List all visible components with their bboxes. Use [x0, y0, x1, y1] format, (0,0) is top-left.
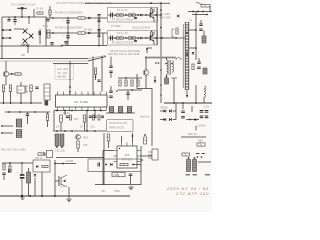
- junction s4a: [192, 11, 194, 13]
- resistor R83: [197, 143, 205, 146]
- dark connector block: [45, 101, 49, 106]
- diode D16: [88, 32, 90, 35]
- junction vb7: [160, 94, 162, 96]
- svg-text:R82 10: R82 10: [188, 132, 197, 136]
- svg-text:R83: R83: [198, 139, 203, 143]
- junction u1: [56, 130, 58, 132]
- transformer T3 winding left: [167, 60, 168, 75]
- junction s4d: [206, 14, 208, 16]
- wire h137: [181, 136, 206, 138]
- resistor R22: [30, 85, 32, 92]
- wire r60 dn: [47, 121, 49, 128]
- wire chB row: [108, 37, 157, 39]
- wire v70: [69, 61, 71, 95]
- wire v54: [53, 111, 55, 132]
- svg-text:R2 68K: R2 68K: [84, 28, 93, 32]
- wire drop28: [27, 46, 29, 53]
- junction corner: [146, 48, 148, 50]
- capacitor C72: [127, 107, 132, 113]
- wire r91 link: [9, 163, 11, 166]
- resistor R41: [119, 80, 121, 86]
- junction rr1: [125, 77, 127, 79]
- svg-text:+5V +12V: +5V +12V: [57, 67, 69, 71]
- capacitor C43b: [109, 96, 113, 98]
- capacitor C82 pair: [200, 111, 204, 118]
- junction in2: [21, 16, 23, 18]
- transformer T2A winding: [128, 13, 136, 17]
- junction t163a: [9, 162, 11, 164]
- junction chB m: [125, 37, 127, 39]
- junction c97 top: [188, 157, 190, 159]
- wire res row bot: [118, 89, 142, 91]
- junction c85a: [197, 156, 199, 158]
- diode D93: [34, 174, 37, 176]
- wire chB rtop: [151, 31, 153, 33]
- capacitor C13b: [197, 67, 200, 69]
- junction c98 top: [194, 157, 196, 159]
- junction p3: [71, 110, 73, 112]
- junction s5a: [3, 102, 5, 104]
- wire c11 top: [203, 31, 205, 37]
- wire t1 left tap: [162, 37, 185, 39]
- svg-text:Haul-Up: Haul-Up: [140, 115, 150, 119]
- bracket relay: [26, 86, 28, 92]
- diode D9: [177, 15, 179, 18]
- wire drop c53: [64, 111, 66, 116]
- capacitor C20: [35, 87, 38, 88]
- junction h119: [189, 119, 191, 121]
- wire bus diagonal: [88, 57, 106, 62]
- resistor R7A: [151, 9, 153, 14]
- junction row1-b: [98, 17, 100, 19]
- wire c4b dn: [51, 44, 53, 46]
- node AC-L: [2, 29, 4, 31]
- varistor VR1: [47, 30, 50, 38]
- svg-text:GND: GND: [114, 189, 120, 193]
- diode D50: [164, 110, 166, 113]
- wire chB out: [154, 37, 157, 39]
- junction t1r2: [195, 47, 197, 49]
- svg-text:-5V: -5V: [101, 189, 105, 193]
- resistor R95: [120, 163, 128, 165]
- junction s5b: [10, 102, 12, 104]
- junction chB n2: [131, 37, 133, 39]
- junction s5c: [30, 102, 32, 104]
- box channel A: [108, 8, 158, 23]
- diode D40: [154, 80, 157, 82]
- svg-text:R61 2K2 C63 1n D60: R61 2K2 C63 1n D60: [1, 148, 26, 152]
- IC1 TL494: [56, 92, 108, 111]
- junction s9z: [43, 153, 45, 155]
- wire d50 in: [160, 110, 164, 112]
- wire box dn: [41, 172, 43, 196]
- svg-text:1K: 1K: [80, 125, 83, 129]
- junction ic2r: [141, 159, 143, 161]
- resistor R52: [83, 115, 86, 122]
- resistor R91: [9, 166, 11, 172]
- junction chA q: [145, 14, 147, 16]
- box feedback dashed: [55, 64, 74, 80]
- diode D91: [36, 165, 38, 167]
- svg-text:C51: C51: [90, 125, 95, 129]
- resistor R60: [46, 114, 48, 121]
- svg-text:F1 5A: F1 5A: [36, 7, 43, 11]
- wire r90 dn: [3, 175, 5, 181]
- capacitor C5d: [97, 20, 100, 21]
- wire chA qe: [153, 18, 155, 22]
- svg-text:GB: GB: [21, 53, 25, 57]
- inductor L3A: [116, 13, 124, 17]
- junction bl4: [54, 195, 56, 197]
- wire C5 link: [67, 27, 69, 34]
- junction c53: [61, 146, 63, 148]
- junction c44: [116, 90, 118, 92]
- resistor R55: [98, 115, 100, 120]
- wire t1 right1: [189, 29, 196, 31]
- capacitor C5a: [46, 20, 49, 22]
- junction vb4: [160, 37, 162, 39]
- capacitor C10: [199, 24, 202, 26]
- capacitor C4c: [64, 42, 67, 43]
- bracket channel corner: [147, 48, 152, 53]
- junction p4: [86, 110, 88, 112]
- junction row2-b: [98, 32, 100, 34]
- arrow winding end: [186, 95, 188, 98]
- wire bc h: [55, 163, 76, 165]
- wire br link: [198, 161, 211, 163]
- capacitor C71: [118, 107, 123, 113]
- resistor R62: [38, 153, 45, 155]
- junction ic2t: [132, 135, 134, 137]
- wire c13: [198, 58, 200, 62]
- node conn a: [1, 125, 3, 127]
- svg-text:C7 1n T2: C7 1n T2: [117, 31, 128, 35]
- svg-text:1K: 1K: [56, 125, 59, 129]
- capacitor C10b: [199, 29, 202, 31]
- junction v70: [69, 86, 71, 88]
- svg-text:WT7510: WT7510: [122, 158, 132, 162]
- junction m2: [19, 111, 21, 113]
- resistor R30: [94, 68, 96, 75]
- resistor R12: [192, 64, 194, 70]
- junction p1: [56, 110, 58, 112]
- wire r22 stub: [20, 82, 22, 86]
- wire v192: [191, 106, 193, 112]
- junction bl3: [41, 195, 43, 197]
- bracket primary: [172, 29, 174, 37]
- resistor R2: [78, 32, 85, 34]
- junction t1 mid: [186, 32, 188, 34]
- wire q5 lead: [9, 73, 22, 75]
- diode D52: [164, 118, 166, 121]
- junction bc1: [54, 163, 56, 165]
- capacitor C55: [93, 116, 96, 117]
- wire v141: [140, 146, 142, 185]
- wire bottom bus: [0, 195, 130, 197]
- wire drop r22: [30, 92, 32, 104]
- capacitor C3 electrolytic: [13, 17, 16, 25]
- wire v104: [103, 133, 105, 185]
- node conn b: [1, 132, 3, 134]
- junction chA l: [114, 14, 116, 16]
- capacitor C5x: [39, 31, 41, 35]
- transistor Q9: [76, 135, 81, 140]
- junction row2-a: [67, 32, 69, 34]
- wire row3: [62, 45, 107, 47]
- capacitor C6 electrolytic: [66, 33, 69, 42]
- diode D15: [88, 17, 90, 20]
- wire right vbus: [160, 3, 162, 103]
- capacitor C41: [109, 66, 112, 68]
- capacitor C60: [16, 119, 22, 127]
- wire c4c dn: [65, 43, 67, 46]
- transformer T3 winding right: [172, 61, 173, 72]
- wire c10 link: [200, 20, 202, 24]
- wire r3 dn: [49, 15, 51, 18]
- capacitor C62: [26, 114, 29, 116]
- wire tick196: [195, 126, 197, 131]
- wire c43 link: [110, 86, 112, 91]
- wire h112: [5, 111, 50, 113]
- junction bus d4: [171, 63, 173, 65]
- junction vb5: [160, 69, 162, 71]
- svg-text:+5V: +5V: [60, 185, 65, 189]
- capacitor C50: [66, 116, 69, 117]
- diode D53: [169, 118, 171, 121]
- wire h63: [53, 63, 88, 65]
- connector CN3: [47, 151, 53, 158]
- wire chA out: [154, 14, 157, 16]
- wire ic2 left: [103, 150, 114, 152]
- capacitor C91 electrolytic big: [20, 163, 25, 196]
- wire chA row: [108, 14, 157, 16]
- wire step right: [137, 74, 152, 146]
- junction C2b: [25, 8, 26, 9]
- wire q8 gnd: [68, 187, 70, 198]
- wire sec4 low bus: [164, 102, 212, 104]
- ground G2: [21, 198, 25, 200]
- junction u4: [94, 130, 96, 132]
- junction chA m: [125, 14, 127, 16]
- svg-text:C52 10u: C52 10u: [55, 149, 65, 153]
- wire v196: [195, 85, 197, 103]
- wire ch feed2: [157, 37, 161, 39]
- wire c92 up: [28, 168, 30, 172]
- diode cross X1: [23, 29, 28, 34]
- junction u5: [64, 130, 66, 132]
- transformer T1 core: [182, 24, 184, 88]
- svg-text:+5VSB: +5VSB: [65, 159, 73, 163]
- wire h119: [186, 119, 199, 121]
- wire drop ic3: [20, 93, 22, 103]
- junction in3: [28, 16, 30, 18]
- wire c44 dn: [127, 95, 129, 101]
- diode D95: [110, 163, 112, 166]
- wire r60 up: [47, 112, 49, 114]
- wire d53 out: [173, 119, 177, 121]
- capacitor C90: [2, 173, 5, 175]
- wire v174: [173, 78, 175, 103]
- capacitor C7A: [111, 13, 113, 18]
- resistor R7B: [151, 32, 153, 37]
- wire q7 up: [145, 57, 147, 70]
- diode D55: [194, 118, 196, 121]
- capacitor C4b: [50, 43, 53, 45]
- wire drop r21: [10, 92, 12, 104]
- capacitor C44: [126, 93, 129, 95]
- svg-text:R2 68K C6 330uF/200V: R2 68K C6 330uF/200V: [55, 26, 83, 30]
- wire input top: [2, 16, 46, 18]
- junction vb2: [160, 14, 162, 16]
- junction s4b: [197, 11, 199, 13]
- wire ch right rail: [156, 8, 158, 46]
- diode D13: [11, 73, 13, 75]
- junction t3d: [166, 76, 168, 78]
- wire chB rbot: [151, 36, 153, 37]
- wire c62 up: [27, 112, 29, 114]
- junction row3: [98, 45, 100, 47]
- wire drop r20: [3, 92, 5, 104]
- wire tr dn: [186, 90, 188, 95]
- wire row1: [46, 17, 107, 19]
- capacitor C93: [9, 169, 11, 172]
- capacitor C98: [193, 160, 197, 172]
- wire drop 95: [94, 111, 96, 117]
- wire acl lead: [3, 29, 9, 31]
- resistor R20: [2, 85, 4, 92]
- junction t1r1: [195, 29, 197, 31]
- junction chA out: [155, 14, 157, 16]
- capacitor C14: [203, 68, 207, 74]
- svg-text:150: 150: [83, 143, 88, 147]
- svg-text:C7 1n T2: C7 1n T2: [117, 8, 128, 12]
- capacitor C9A: [134, 18, 137, 19]
- junction m1: [8, 111, 10, 113]
- capacitor C6c: [97, 30, 100, 31]
- capacitor C43: [109, 91, 113, 93]
- junction bx1: [24, 30, 25, 31]
- capacitor C5c: [97, 15, 100, 16]
- junction chB out: [155, 37, 157, 39]
- junction p5: [94, 110, 96, 112]
- box supervisor: [107, 120, 134, 132]
- svg-text:R1 68K C5 330uF/200V: R1 68K C5 330uF/200V: [55, 11, 83, 15]
- junction chA n: [137, 14, 139, 16]
- wire c92 dn: [28, 183, 30, 196]
- junction v183: [182, 102, 184, 104]
- svg-text:PWR GOOD: PWR GOOD: [109, 126, 124, 130]
- capacitor C54: [101, 116, 104, 117]
- svg-text:2?C ATP-250: 2?C ATP-250: [175, 191, 209, 196]
- wire t3 top: [166, 57, 168, 60]
- junction chA n2: [131, 14, 133, 16]
- junction m3: [34, 111, 36, 113]
- wire col103: [102, 33, 104, 46]
- wire q7 down: [145, 75, 147, 88]
- wire pin bus: [54, 110, 106, 112]
- junction r71: [144, 134, 146, 136]
- transformer T1 winding: [185, 22, 189, 90]
- capacitor C51: [89, 116, 92, 117]
- resistor R1: [78, 17, 85, 19]
- junction bus d3: [165, 63, 167, 65]
- resistor R9: [201, 5, 210, 7]
- junction topbus2: [160, 2, 162, 4]
- junction bc2: [62, 163, 64, 165]
- svg-text:D1-4 1N4007 C1 2n2: D1-4 1N4007 C1 2n2: [11, 3, 36, 7]
- wire c96 dn: [130, 176, 132, 185]
- wire ic2 top2: [132, 133, 134, 143]
- wire r0 stub: [33, 9, 35, 17]
- junction t163b: [21, 162, 23, 164]
- junction r2l: [52, 32, 54, 34]
- resistor R44: [137, 80, 139, 86]
- wire d40 up: [154, 76, 156, 80]
- junction rr2: [131, 89, 133, 91]
- junction p6: [100, 110, 102, 112]
- junction vb3: [160, 27, 162, 29]
- junction chB n: [137, 37, 139, 39]
- resistor R43: [131, 80, 133, 86]
- wire r30 link: [95, 75, 97, 81]
- svg-text:R8 470 C9 10n D8 FR104: R8 470 C9 10n D8 FR104: [110, 49, 141, 53]
- svg-text:4K7: 4K7: [74, 117, 79, 121]
- wire c62 dn: [27, 116, 29, 125]
- wire drop r52: [84, 122, 86, 131]
- wire ic2 right link: [141, 155, 153, 157]
- resistor R90: [3, 164, 5, 170]
- wire chA rtop: [151, 8, 153, 10]
- wire chA qc: [153, 9, 155, 12]
- svg-text:R7 2R2 D7 FR104: R7 2R2 D7 FR104: [112, 41, 134, 45]
- connector CN4: [148, 149, 158, 160]
- junction row3b: [61, 45, 63, 47]
- wire arrow d12: [186, 50, 188, 54]
- svg-text:B+ 310V: B+ 310V: [160, 12, 170, 16]
- wire t3-c12: [166, 75, 168, 79]
- svg-text:R51: R51: [63, 111, 68, 115]
- wire mid rail: [14, 28, 22, 30]
- transistor Q1: [146, 12, 154, 19]
- svg-text:TH1: TH1: [43, 24, 48, 28]
- wire acn lead: [3, 37, 9, 39]
- capacitor C80: [181, 111, 185, 113]
- diode D12: [192, 52, 195, 54]
- node AC-N: [2, 37, 4, 39]
- resistor R70: [107, 134, 110, 141]
- resistor R42: [125, 80, 127, 86]
- capacitor C95: [98, 163, 100, 167]
- resistor R96: [112, 172, 125, 177]
- junction chB l: [114, 37, 116, 39]
- resistor R92: [42, 165, 48, 167]
- wire conn a: [2, 125, 13, 127]
- junction pin top: [69, 91, 71, 93]
- transistor Q8 mosfet: [59, 175, 67, 187]
- wire q5 c: [5, 61, 7, 71]
- arrow out: [186, 54, 188, 57]
- wire r cap rail: [195, 12, 197, 60]
- wire q8 v: [55, 180, 59, 182]
- ground G4: [128, 186, 133, 190]
- junction bx2: [30, 35, 31, 36]
- wire sb bus: [95, 184, 141, 186]
- wire bus diagonal2: [88, 56, 106, 59]
- transistor Q5: [3, 71, 9, 77]
- capacitor C53: [60, 134, 64, 146]
- cap marks below: [186, 174, 211, 176]
- svg-text:-5V -12V: -5V -12V: [57, 71, 68, 75]
